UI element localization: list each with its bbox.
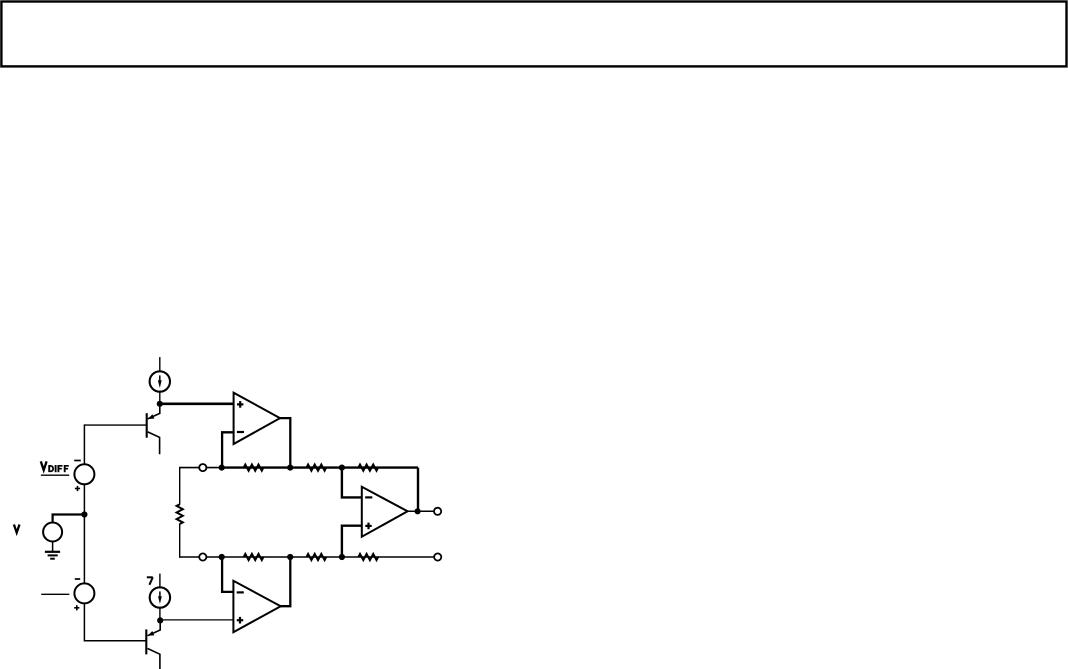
- node: top row / A1 inverting: [219, 465, 225, 471]
- wire: top row left corner: [180, 467, 222, 469]
- wire: A3 inverting input: [342, 468, 362, 498]
- resistor R6 (bottom output): [358, 554, 378, 560]
- wire: lower source to Q2 base: [84, 603, 146, 641]
- op-amp A3: [362, 487, 408, 537]
- wire: A3 non-inverting input: [342, 526, 362, 557]
- port: output terminal: [434, 508, 441, 515]
- source V2 (lower input source): [74, 583, 94, 603]
- wire: feedback corner down to output node: [417, 468, 419, 512]
- resistor R1 (top left): [244, 465, 264, 471]
- resistor R2 (top middle): [307, 465, 327, 471]
- op-amp A2: [233, 581, 280, 632]
- current source I1: [150, 357, 170, 404]
- resistor RG: [177, 504, 183, 524]
- node: top row / A3 inverting: [339, 465, 345, 471]
- source V (common mode): [43, 523, 62, 542]
- node: bottom row / A3 non-inverting: [339, 554, 345, 560]
- transistor Q1 (PNP): [147, 404, 160, 455]
- wire: V source to ground: [52, 542, 54, 552]
- unlabeled source dash line: [41, 593, 69, 595]
- transistor Q2 (PNP): [146, 620, 160, 669]
- wire: gain rail lower segment: [179, 524, 181, 558]
- node: bottom row / A2 output: [287, 554, 293, 560]
- wire: Q1 base: [84, 424, 146, 426]
- op-amp A1: [234, 393, 280, 444]
- label V: [14, 525, 20, 533]
- port: bottom row terminal: [199, 553, 206, 560]
- node: common-mode tap junction: [81, 511, 87, 517]
- wire: tap to V source: [53, 515, 85, 523]
- wire: junction to A1 + input: [160, 402, 234, 405]
- resistor R5 (bottom middle): [307, 554, 327, 560]
- wire: A2 output to bottom row: [280, 557, 291, 606]
- wire: A2 inverting input: [222, 557, 233, 592]
- polarity + (VDIFF bottom): [75, 486, 80, 491]
- polarity - (VDIFF top): [74, 460, 81, 462]
- port: top row terminal: [199, 464, 206, 471]
- wire: A3 output: [407, 510, 434, 512]
- wire: left rail between sources: [83, 515, 85, 584]
- node: top row / A1 output: [287, 465, 293, 471]
- node: bottom row / A2 inverting: [219, 554, 225, 560]
- wire: top row main: [222, 466, 418, 468]
- port: reference terminal: [434, 553, 441, 560]
- node: output junction: [415, 508, 421, 514]
- wire: junction to A2 + input: [160, 619, 233, 621]
- wire: A1 inverting input: [222, 432, 234, 467]
- resistor R3 (top feedback): [358, 465, 378, 471]
- wire: bottom row main: [180, 556, 435, 558]
- polarity - (lower source top): [75, 578, 80, 580]
- wire: VDIFF to common node: [83, 484, 85, 514]
- source VDIFF: [74, 464, 94, 484]
- wire: A1 output to top row: [279, 418, 290, 468]
- label 7: [147, 577, 153, 585]
- wire: left rail to VDIFF source: [83, 424, 85, 464]
- node: I2 / Q2 emitter / A2 + junction: [157, 617, 163, 623]
- label VDIFF: [41, 461, 69, 475]
- wire: gain rail upper segment: [179, 467, 181, 505]
- node: I1 / Q1 emitter / A1 + junction: [157, 401, 163, 407]
- polarity + (lower source bottom): [74, 605, 79, 610]
- resistor R4 (bottom left): [244, 554, 264, 560]
- ground: [45, 552, 60, 559]
- current source I2: [150, 574, 170, 621]
